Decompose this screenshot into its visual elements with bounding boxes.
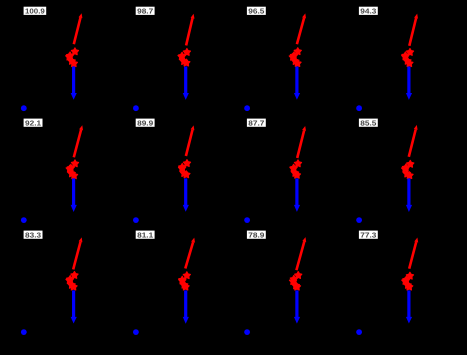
r2c3 blue arrow xyxy=(294,178,300,212)
r2c4 blue arrow xyxy=(406,178,412,212)
r2c2 value label 89.9 xyxy=(136,118,155,127)
r2c4 value label 85.5 xyxy=(359,118,378,127)
r2c2 blue dot xyxy=(133,217,139,223)
r1c2 blue dot xyxy=(133,105,139,111)
r1c1 red star markers xyxy=(66,48,79,67)
r1c4 blue arrow xyxy=(406,67,412,100)
svg-text:87.7: 87.7 xyxy=(248,118,264,127)
r2c3 red arrow xyxy=(297,126,306,158)
svg-text:96.5: 96.5 xyxy=(248,7,264,16)
r1c3 blue dot xyxy=(244,105,250,111)
r3c3 red star markers xyxy=(289,272,301,290)
r2c2 blue arrow xyxy=(183,178,189,211)
r1c2 blue arrow xyxy=(183,67,189,100)
r3c2 red star markers xyxy=(179,272,191,290)
svg-text:98.7: 98.7 xyxy=(137,7,153,16)
r2c3 value label 87.7 xyxy=(247,118,266,127)
r3c2 blue dot xyxy=(133,329,139,335)
r3c4 blue dot xyxy=(356,329,362,335)
r2c1 red star markers xyxy=(66,160,78,179)
r2c4 red star markers xyxy=(402,160,414,178)
svg-text:78.9: 78.9 xyxy=(248,230,264,239)
r2c1 blue arrow xyxy=(71,178,77,212)
r2c1 red arrow xyxy=(74,125,83,157)
svg-text:81.1: 81.1 xyxy=(137,230,153,239)
r3c3 red arrow xyxy=(296,237,306,270)
r3c4 red star markers xyxy=(402,272,414,290)
r2c4 blue dot xyxy=(356,217,362,223)
r3c2 red arrow xyxy=(185,238,195,269)
r1c4 blue dot xyxy=(356,105,362,111)
r1c3 red star markers xyxy=(289,48,301,67)
r1c4 value label 94.3 xyxy=(359,7,378,16)
svg-text:85.5: 85.5 xyxy=(360,118,376,127)
r1c2 red arrow xyxy=(186,14,194,46)
r3c2 value label 81.1 xyxy=(136,230,155,239)
r1c2 value label 98.7 xyxy=(136,7,155,16)
svg-text:83.3: 83.3 xyxy=(25,230,41,239)
r3c1 blue dot xyxy=(21,329,27,335)
svg-text:89.9: 89.9 xyxy=(137,118,153,127)
r1c1 blue dot xyxy=(21,105,27,111)
r1c4 red arrow xyxy=(409,14,418,46)
r3c3 value label 78.9 xyxy=(247,230,266,239)
r1c4 red star markers xyxy=(402,49,414,67)
r3c1 value label 83.3 xyxy=(24,230,43,239)
r1c1 value label 100.9 xyxy=(24,7,47,16)
r1c1 red arrow xyxy=(74,13,83,44)
r3c4 value label 77.3 xyxy=(359,230,378,239)
r3c2 blue arrow xyxy=(183,290,189,323)
svg-text:77.3: 77.3 xyxy=(360,230,376,239)
r3c1 red arrow xyxy=(73,237,82,269)
r2c1 blue dot xyxy=(21,217,27,223)
r2c2 red arrow xyxy=(186,125,195,156)
r2c3 red star markers xyxy=(290,160,302,178)
r1c1 blue arrow xyxy=(71,67,77,100)
svg-text:92.1: 92.1 xyxy=(25,118,41,127)
r3c3 blue dot xyxy=(244,329,250,335)
r3c4 red arrow xyxy=(409,238,418,269)
r2c4 red arrow xyxy=(409,125,418,157)
r3c1 red star markers xyxy=(66,272,78,290)
r3c1 blue arrow xyxy=(71,290,77,323)
r2c1 value label 92.1 xyxy=(24,118,43,127)
r1c2 red star markers xyxy=(178,49,190,66)
r1c3 value label 96.5 xyxy=(247,7,266,16)
r1c3 blue arrow xyxy=(294,67,300,100)
r3c4 blue arrow xyxy=(406,290,412,323)
svg-text:100.9: 100.9 xyxy=(25,7,45,16)
svg-text:94.3: 94.3 xyxy=(360,7,376,16)
r1c3 red arrow xyxy=(297,13,306,44)
r2c2 red star markers xyxy=(179,160,191,178)
r3c3 blue arrow xyxy=(294,290,300,323)
r2c3 blue dot xyxy=(244,217,250,223)
